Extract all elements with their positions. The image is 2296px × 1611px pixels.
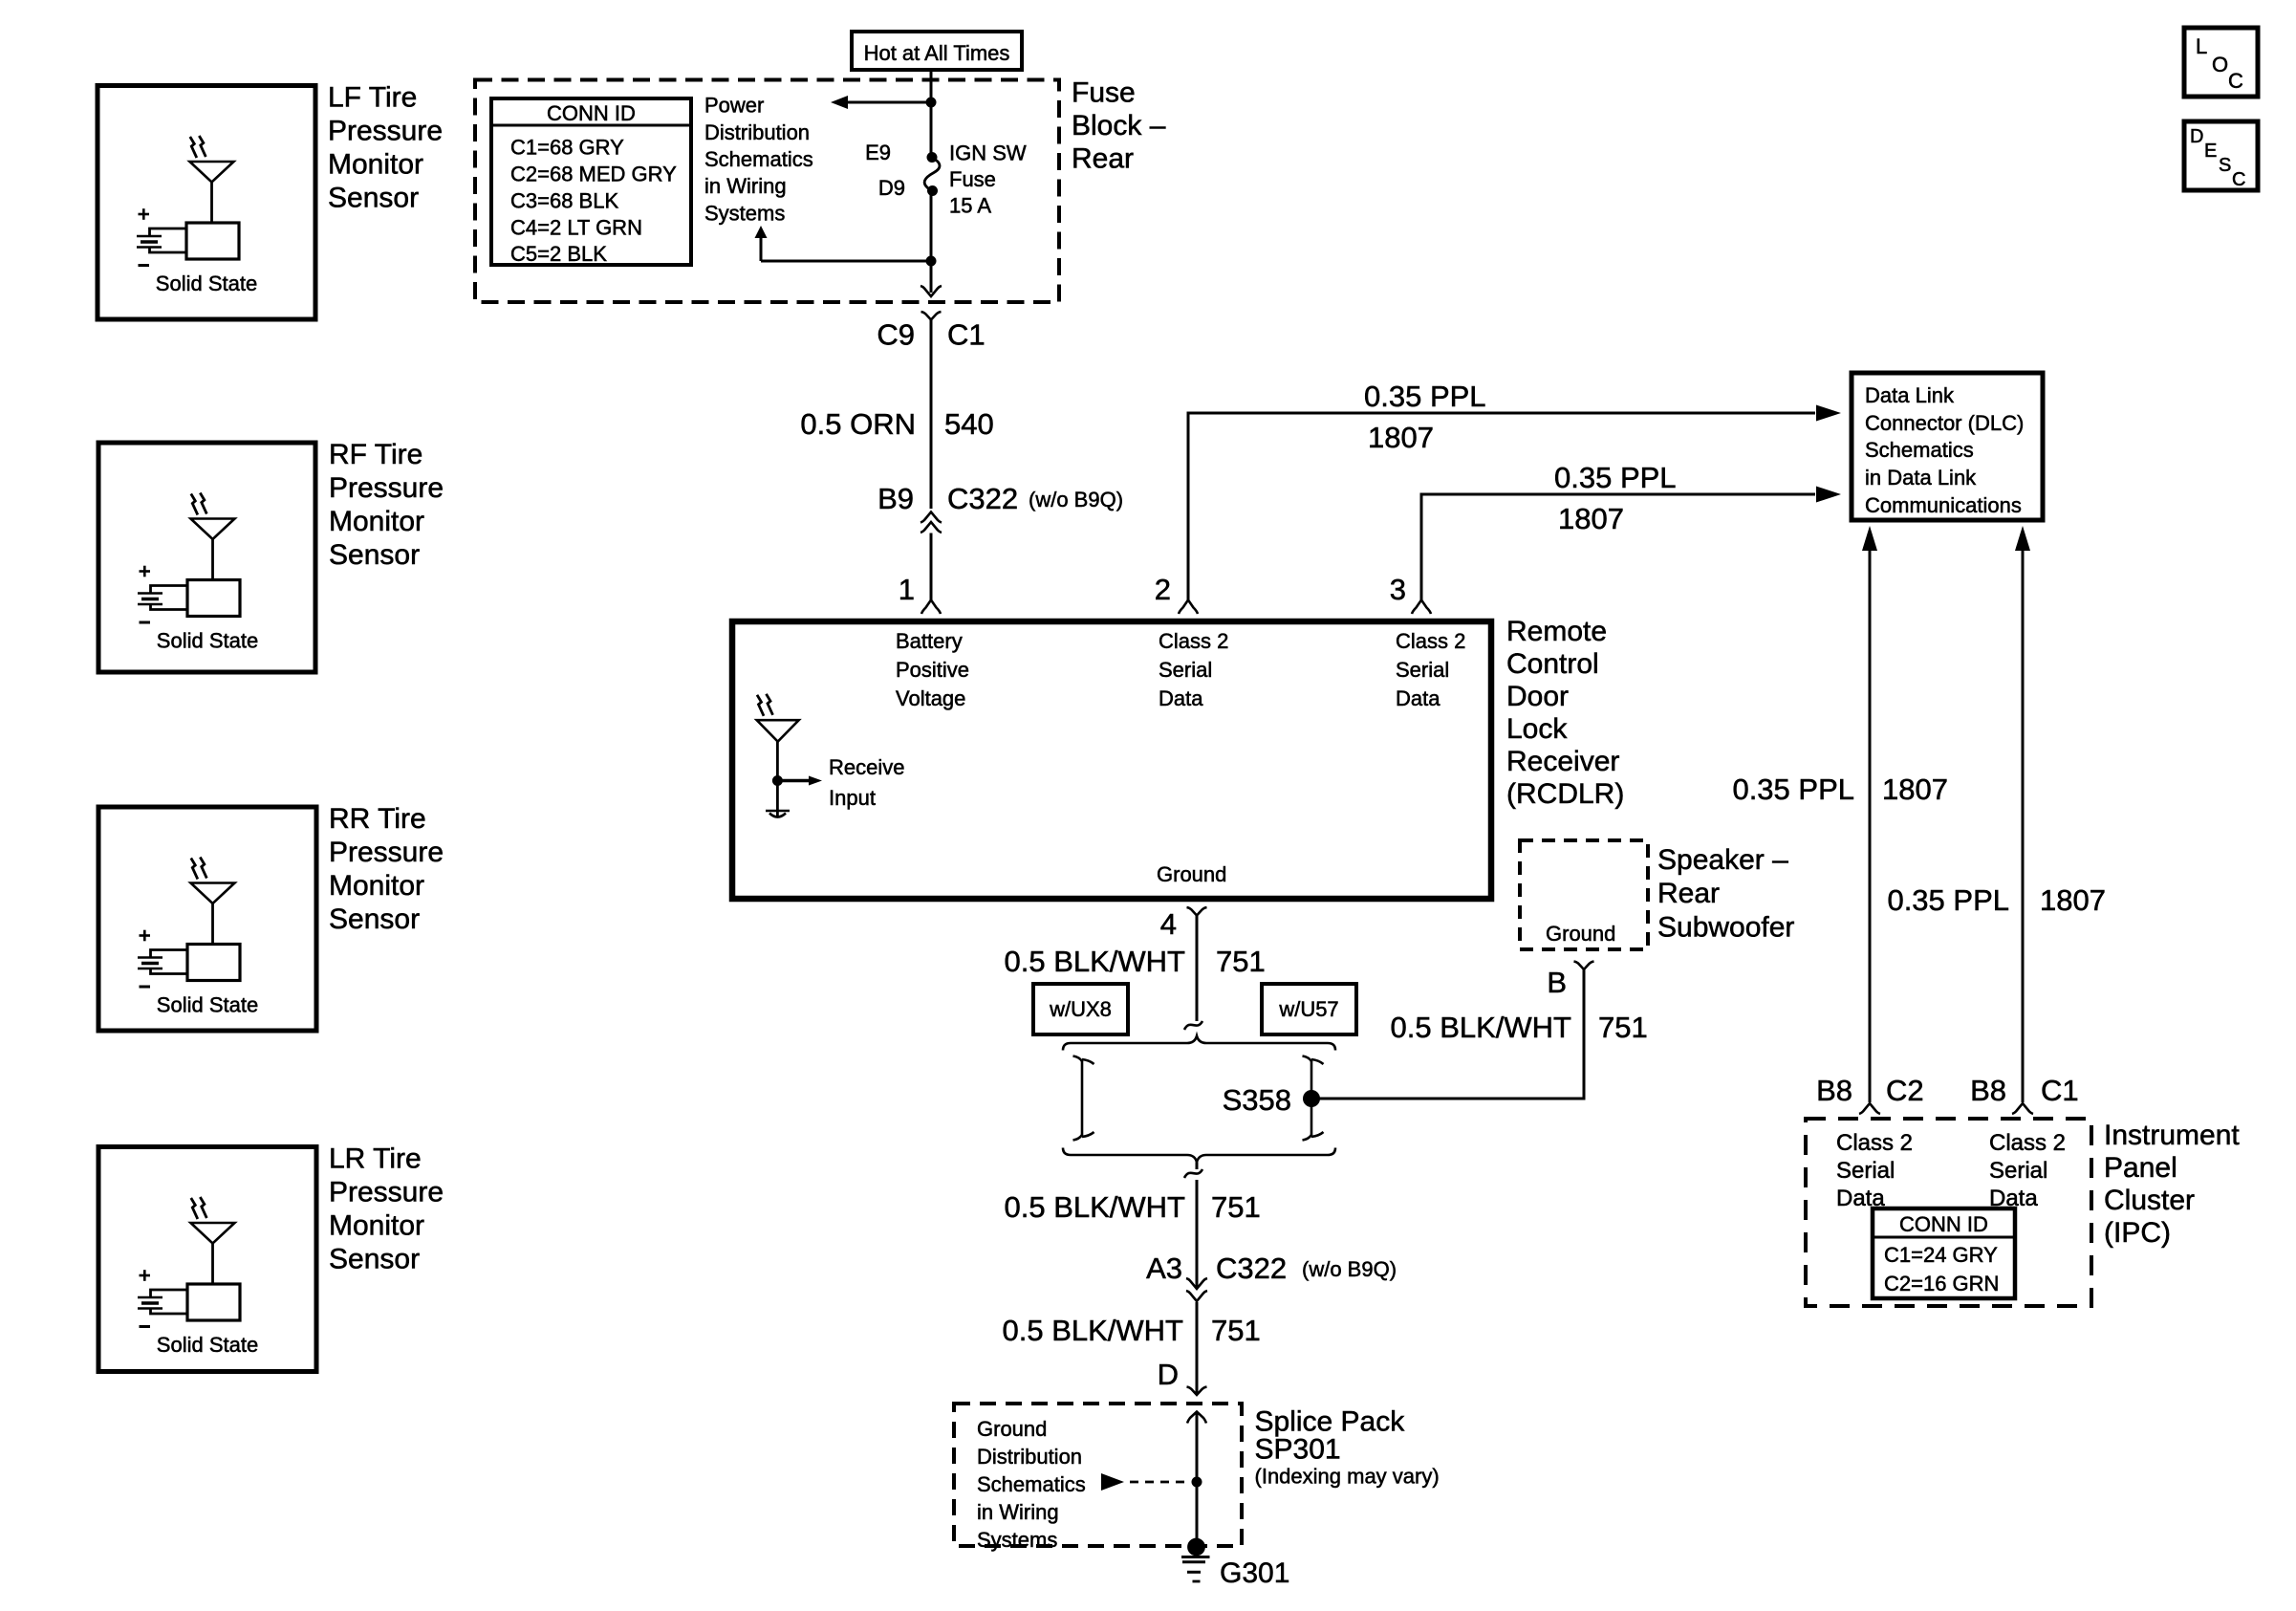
svg-text:2: 2 [1155, 573, 1171, 606]
svg-text:C2: C2 [1886, 1074, 1924, 1107]
svg-text:4: 4 [1160, 907, 1177, 941]
svg-text:1807: 1807 [1882, 773, 1948, 806]
svg-text:CONN ID: CONN ID [547, 101, 636, 125]
svg-text:Voltage: Voltage [896, 686, 965, 710]
svg-text:Monitor: Monitor [328, 149, 423, 181]
svg-text:751: 751 [1216, 945, 1266, 978]
svg-text:Block –: Block – [1072, 110, 1166, 142]
svg-text:Fuse: Fuse [1072, 77, 1136, 109]
svg-text:Sensor: Sensor [329, 539, 420, 571]
svg-text:(w/o B9Q): (w/o B9Q) [1302, 1257, 1397, 1281]
svg-text:Battery: Battery [896, 629, 963, 653]
svg-text:Hot at All Times: Hot at All Times [864, 41, 1010, 65]
svg-text:Control: Control [1506, 648, 1599, 680]
svg-text:E9: E9 [865, 141, 891, 164]
svg-text:Serial: Serial [1836, 1158, 1895, 1184]
svg-text:RR Tire: RR Tire [329, 803, 426, 835]
svg-text:Positive: Positive [896, 658, 969, 682]
svg-text:Pressure: Pressure [329, 472, 444, 504]
svg-text:B9: B9 [877, 482, 914, 515]
svg-text:0.5 BLK/WHT: 0.5 BLK/WHT [1005, 945, 1186, 978]
svg-text:0.35 PPL: 0.35 PPL [1887, 883, 2009, 917]
svg-text:B8: B8 [1970, 1074, 2006, 1107]
svg-text:IGN SW: IGN SW [949, 142, 1027, 165]
svg-text:G301: G301 [1220, 1557, 1289, 1589]
svg-text:Cluster: Cluster [2104, 1185, 2195, 1216]
svg-text:Systems: Systems [704, 202, 785, 226]
svg-text:Receive: Receive [829, 755, 904, 779]
svg-text:Ground: Ground [977, 1417, 1047, 1441]
svg-text:C3=68 BLK: C3=68 BLK [510, 189, 618, 213]
svg-text:in Wiring: in Wiring [704, 174, 787, 198]
svg-text:(w/o B9Q): (w/o B9Q) [1029, 488, 1123, 512]
svg-text:Subwoofer: Subwoofer [1657, 912, 1794, 944]
svg-text:C322: C322 [947, 482, 1018, 515]
svg-text:751: 751 [1211, 1190, 1261, 1224]
svg-text:Pressure: Pressure [328, 116, 443, 147]
svg-text:Serial: Serial [1159, 658, 1212, 682]
svg-text:Receiver: Receiver [1506, 746, 1619, 777]
svg-text:(IPC): (IPC) [2104, 1217, 2171, 1249]
svg-text:Rear: Rear [1072, 143, 1134, 175]
svg-text:751: 751 [1211, 1314, 1261, 1347]
svg-text:Sensor: Sensor [328, 183, 419, 214]
svg-text:Lock: Lock [1506, 713, 1568, 745]
svg-text:SP301: SP301 [1255, 1434, 1341, 1466]
svg-text:0.35 PPL: 0.35 PPL [1364, 380, 1486, 413]
svg-text:Power: Power [704, 94, 764, 118]
svg-text:in Data Link: in Data Link [1865, 466, 1977, 490]
svg-text:(Indexing may vary): (Indexing may vary) [1255, 1465, 1440, 1489]
svg-text:Remote: Remote [1506, 616, 1607, 647]
svg-text:Monitor: Monitor [329, 506, 424, 537]
svg-text:Distribution: Distribution [704, 120, 810, 144]
svg-text:1: 1 [899, 573, 915, 606]
svg-text:Sensor: Sensor [329, 903, 420, 935]
svg-text:1807: 1807 [2040, 883, 2106, 917]
svg-text:Serial: Serial [1989, 1158, 2047, 1184]
svg-text:C: C [2232, 169, 2245, 190]
svg-text:Systems: Systems [977, 1528, 1057, 1552]
svg-text:C9: C9 [877, 318, 915, 352]
svg-text:Instrument: Instrument [2104, 1120, 2240, 1151]
svg-text:Schematics: Schematics [704, 147, 813, 171]
svg-text:Data Link: Data Link [1865, 383, 1955, 407]
svg-text:Monitor: Monitor [329, 870, 424, 902]
svg-text:C4=2 LT GRN: C4=2 LT GRN [510, 216, 642, 240]
svg-text:540: 540 [944, 407, 994, 441]
svg-text:D9: D9 [878, 176, 905, 200]
svg-text:in Wiring: in Wiring [977, 1500, 1059, 1524]
svg-text:Pressure: Pressure [329, 1177, 444, 1208]
svg-text:0.5 BLK/WHT: 0.5 BLK/WHT [1003, 1314, 1184, 1347]
svg-text:C2=16 GRN: C2=16 GRN [1884, 1272, 1999, 1295]
svg-text:Schematics: Schematics [1865, 438, 1974, 462]
svg-text:1807: 1807 [1368, 421, 1434, 454]
svg-text:Speaker –: Speaker – [1657, 844, 1788, 876]
svg-text:Sensor: Sensor [329, 1244, 420, 1275]
svg-text:751: 751 [1598, 1011, 1648, 1044]
svg-text:Ground: Ground [1546, 922, 1615, 946]
svg-text:(RCDLR): (RCDLR) [1506, 778, 1624, 810]
svg-text:C1=68 GRY: C1=68 GRY [510, 136, 624, 160]
svg-text:D: D [2190, 126, 2203, 147]
svg-text:Input: Input [829, 786, 876, 810]
svg-text:B8: B8 [1816, 1074, 1852, 1107]
svg-text:Ground: Ground [1157, 862, 1226, 886]
svg-text:0.35 PPL: 0.35 PPL [1732, 773, 1854, 806]
svg-text:15 A: 15 A [949, 194, 991, 218]
svg-text:A3: A3 [1146, 1252, 1182, 1285]
svg-text:1807: 1807 [1558, 502, 1624, 535]
svg-text:0.5 ORN: 0.5 ORN [800, 407, 916, 441]
svg-text:L: L [2196, 34, 2207, 58]
svg-text:w/UX8: w/UX8 [1049, 997, 1112, 1021]
svg-text:w/U57: w/U57 [1278, 997, 1338, 1021]
svg-text:Distribution: Distribution [977, 1445, 1082, 1469]
svg-text:C: C [2228, 69, 2243, 93]
svg-text:RF Tire: RF Tire [329, 439, 422, 470]
svg-text:D: D [1158, 1358, 1179, 1391]
svg-text:0.5 BLK/WHT: 0.5 BLK/WHT [1005, 1190, 1186, 1224]
svg-text:Class 2: Class 2 [1836, 1130, 1913, 1156]
svg-text:3: 3 [1390, 573, 1406, 606]
svg-text:Door: Door [1506, 681, 1569, 712]
svg-text:Serial: Serial [1396, 658, 1449, 682]
svg-text:0.35 PPL: 0.35 PPL [1554, 461, 1677, 494]
svg-text:Class 2: Class 2 [1159, 629, 1228, 653]
svg-text:Connector (DLC): Connector (DLC) [1865, 411, 2024, 435]
svg-text:Panel: Panel [2104, 1152, 2177, 1184]
svg-text:C5=2 BLK: C5=2 BLK [510, 242, 607, 266]
svg-text:CONN ID: CONN ID [1899, 1212, 1988, 1236]
svg-text:LF Tire: LF Tire [328, 82, 417, 114]
svg-text:B: B [1547, 966, 1567, 999]
svg-text:Fuse: Fuse [949, 167, 996, 191]
svg-text:C1: C1 [2041, 1074, 2079, 1107]
svg-text:Class 2: Class 2 [1989, 1130, 2066, 1156]
svg-text:Monitor: Monitor [329, 1210, 424, 1242]
svg-text:E: E [2204, 141, 2217, 162]
svg-text:C2=68 MED GRY: C2=68 MED GRY [510, 163, 677, 186]
svg-text:Schematics: Schematics [977, 1472, 1086, 1496]
svg-text:O: O [2212, 53, 2228, 76]
svg-text:Class 2: Class 2 [1396, 629, 1465, 653]
svg-text:S358: S358 [1223, 1083, 1291, 1117]
svg-text:Rear: Rear [1657, 878, 1720, 909]
svg-text:Data: Data [1396, 686, 1440, 710]
svg-text:Communications: Communications [1865, 493, 2022, 517]
svg-text:0.5 BLK/WHT: 0.5 BLK/WHT [1391, 1011, 1572, 1044]
svg-text:Pressure: Pressure [329, 837, 444, 868]
svg-text:C322: C322 [1216, 1252, 1287, 1285]
svg-text:Data: Data [1159, 686, 1203, 710]
svg-text:C1=24 GRY: C1=24 GRY [1884, 1243, 1998, 1267]
svg-text:LR Tire: LR Tire [329, 1143, 422, 1175]
svg-text:C1: C1 [947, 318, 986, 352]
svg-text:S: S [2219, 155, 2231, 176]
